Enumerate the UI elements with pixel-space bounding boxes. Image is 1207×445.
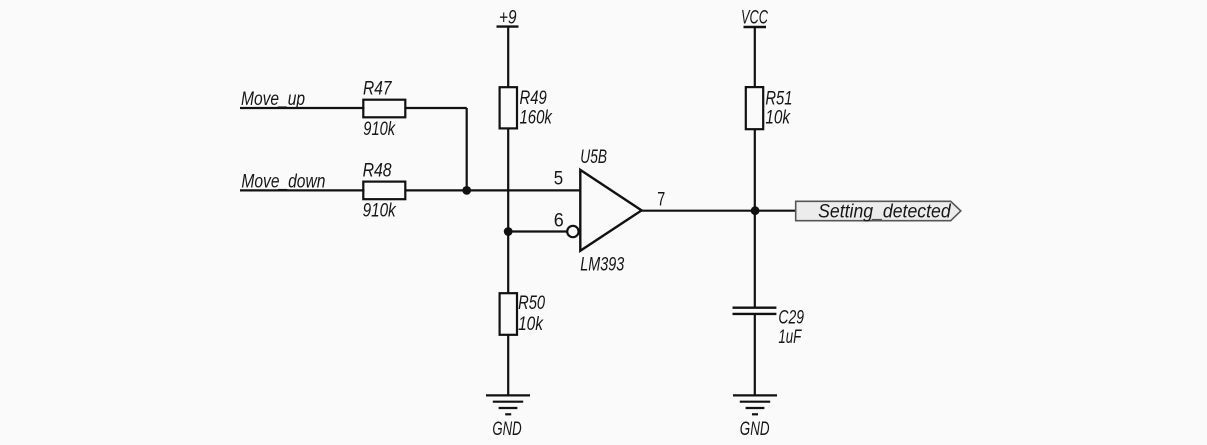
svg-text:U5B: U5B (580, 147, 607, 168)
wire op-amp output to flag (642, 210, 796, 212)
svg-text:VCC: VCC (741, 7, 768, 28)
capacitor C29 (733, 307, 805, 348)
svg-text:1uF: 1uF (778, 327, 802, 348)
junction at rail and pin6 wire (504, 227, 513, 236)
svg-text:6: 6 (554, 210, 564, 231)
wire Move_up to R47 (240, 107, 365, 109)
resistor R47 (363, 79, 405, 141)
svg-text:5: 5 (554, 169, 563, 190)
ground GND (right) (733, 395, 777, 439)
wire R47 right to corner (405, 107, 466, 109)
svg-text:R49: R49 (520, 88, 548, 109)
svg-text:Setting_detected: Setting_detected (818, 202, 952, 223)
svg-text:910k: 910k (363, 201, 397, 222)
resistor R48 (363, 160, 406, 221)
svg-text:R50: R50 (518, 293, 545, 314)
svg-text:LM393: LM393 (580, 254, 624, 275)
junction at output and VCC branch (751, 206, 760, 215)
wire R50 bottom to GND (507, 335, 509, 396)
svg-text:10k: 10k (518, 314, 544, 335)
svg-text:10k: 10k (765, 108, 791, 129)
wire pin 6 from rail to bubble (508, 230, 566, 232)
svg-text:GND: GND (492, 419, 521, 440)
inverting input bubble (567, 226, 578, 237)
hierarchical label Setting_detected (796, 201, 961, 222)
resistor R49 (500, 87, 553, 128)
svg-text:910k: 910k (363, 119, 396, 140)
svg-text:R47: R47 (363, 79, 393, 100)
power symbol VCC (741, 7, 768, 28)
resistor R50 (500, 293, 546, 335)
svg-text:7: 7 (657, 189, 665, 210)
wire +9 rail down to R49 (507, 27, 509, 88)
power symbol +9 (497, 7, 519, 28)
resistor R51 (746, 87, 793, 129)
wire R49 bottom down to R50 top (507, 128, 509, 293)
svg-text:160k: 160k (520, 107, 554, 128)
svg-text:Move_up: Move_up (241, 89, 305, 110)
wire R51 bottom to output net (754, 129, 756, 307)
svg-text:R48: R48 (363, 160, 392, 181)
svg-text:GND: GND (740, 419, 770, 440)
wire VCC rail down to R51 (754, 27, 756, 88)
wire corner down to Move_down net (466, 108, 468, 190)
wire Move_down to R48 (240, 189, 365, 191)
op-amp U5B (554, 147, 666, 275)
svg-text:R51: R51 (765, 88, 792, 109)
wire C29 bottom to GND (754, 314, 756, 396)
svg-text:C29: C29 (778, 307, 804, 328)
ground GND (left) (486, 395, 530, 440)
svg-text:Move_down: Move_down (241, 171, 325, 192)
junction of R47/R48 nets (462, 186, 471, 195)
wire R48 right to op-amp pin 5 (405, 189, 580, 191)
svg-text:+9: +9 (499, 7, 517, 28)
